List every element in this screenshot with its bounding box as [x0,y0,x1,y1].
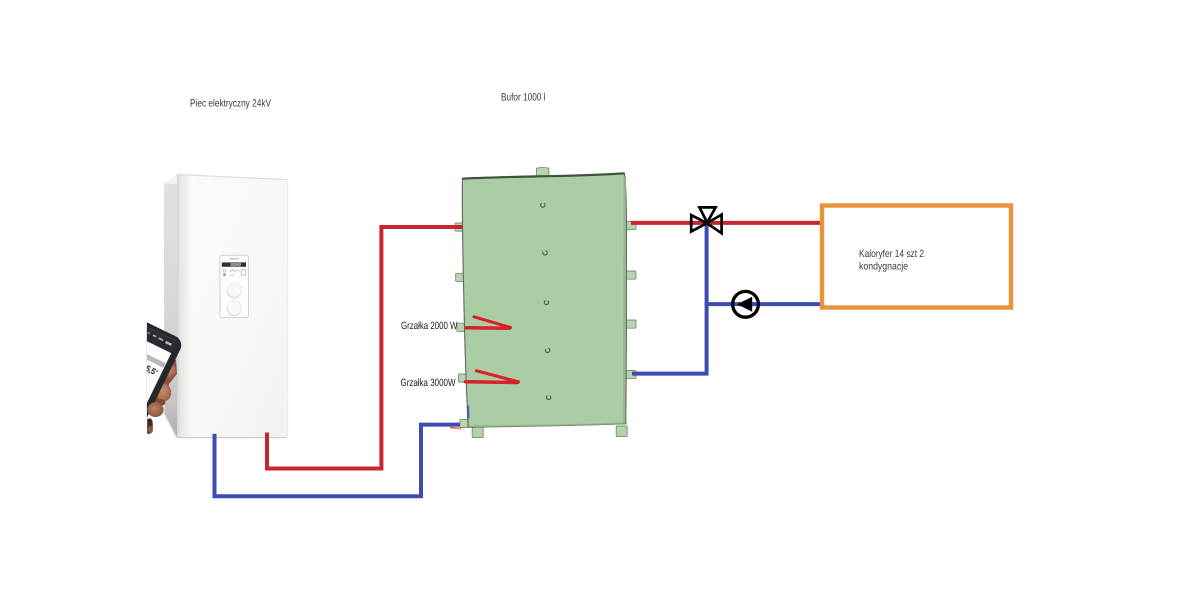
three-way valve [691,207,721,233]
small red mark near bottom-left tank port [450,427,461,428]
red supply wire buffer to radiator [631,221,820,225]
control panel [220,255,249,317]
sensor circles [541,203,551,400]
icon cluster [223,270,245,276]
radiator box Kaloryfer [822,206,1011,308]
knob 2 [227,301,242,316]
tank side ports [455,222,636,428]
small blue mark at bottom-left tank port [467,406,470,419]
svg-text:Kaloryfer 14 szt 2: Kaloryfer 14 szt 2 [859,248,924,260]
red arrow to 2000W port [467,317,511,328]
blue wire branch to radiator through pump [705,302,820,306]
svg-text:Bufor 1000 l: Bufor 1000 l [501,92,546,104]
buffer tank body [455,167,636,437]
boiler right edge [287,180,289,438]
hand fingers behind phone [161,363,176,377]
svg-text:kondygnacje: kondygnacje [859,261,908,273]
boiler photo group [67,175,287,467]
blue return wire buffer to boiler [215,423,460,499]
blue wire valve down [632,224,707,374]
boiler front face [177,175,288,438]
svg-text:Piec elektryczny 24kV: Piec elektryczny 24kV [190,98,271,110]
boiler bottom edge [164,413,287,437]
boiler side face lower shadow [164,390,177,438]
display bar [222,262,246,266]
red arrow to 3000W port [466,371,519,383]
boiler front top edge [177,175,288,180]
right inner shade [623,177,626,423]
smartphone [67,313,184,466]
circulation pump [733,291,759,317]
tank body fill [462,173,626,427]
boiler top face sliver [164,175,288,187]
boiler front face left shading [177,175,192,438]
svg-text:Grzałka 3000W: Grzałka 3000W [401,377,456,389]
boiler side face [164,175,177,438]
5,5 deg reading on phone screen [145,366,158,377]
bottom inner shade [475,423,623,426]
top dark band [462,173,624,178]
svg-text:Grzałka 2000 W: Grzałka 2000 W [401,320,458,332]
grey app band [115,340,166,368]
knob 1 [227,284,242,299]
red supply wire boiler to buffer [267,227,463,471]
hand mass behind phone [148,356,177,406]
top port [537,167,550,177]
fingertip over phone corner [147,402,163,417]
dark hand sliver below fingertip [147,418,153,433]
tank feet [472,426,627,438]
